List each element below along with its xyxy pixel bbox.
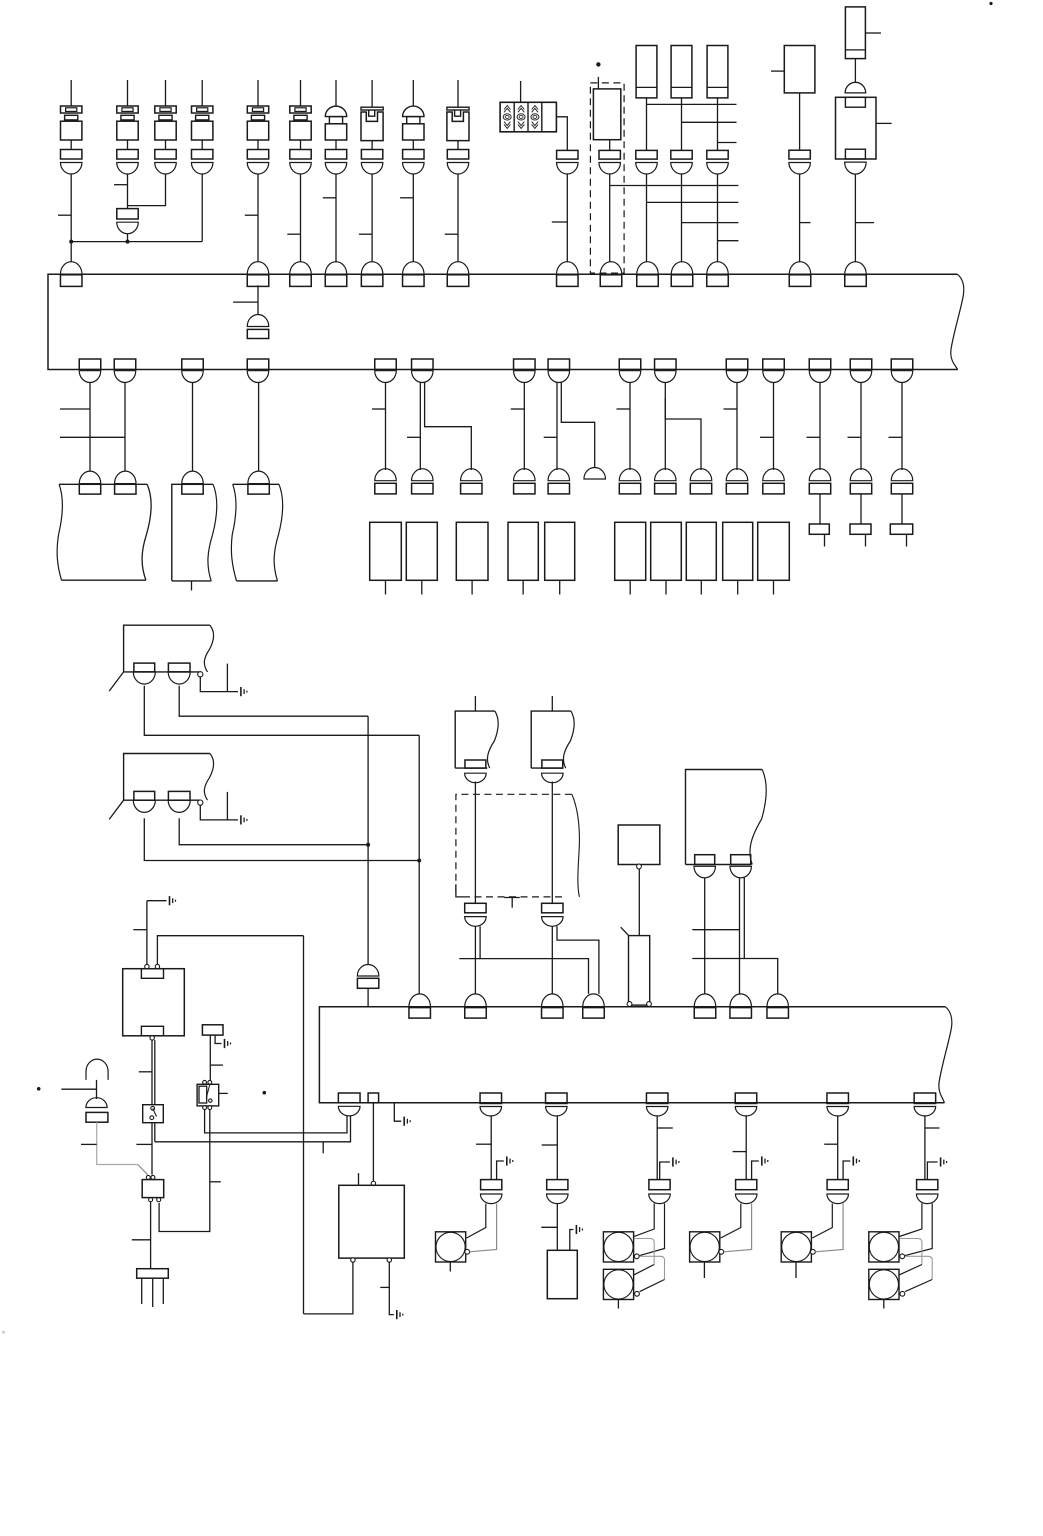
spk4 ground [761, 1156, 763, 1165]
switch body M1 [629, 936, 650, 1006]
terminal rect x820 [809, 524, 829, 534]
bus2 entry connector x419.7 [409, 994, 431, 1007]
connector below FB3 [707, 150, 728, 159]
bus1 entry connector x336 [325, 262, 347, 275]
branch rung 6 [682, 222, 739, 224]
bus1 bottom pin x630 [619, 359, 641, 370]
S1 lever [153, 1108, 157, 1116]
wire spk1 [490, 1116, 492, 1180]
gauge cell glyph 2 [518, 106, 524, 110]
bus1 exit connector x737 [726, 371, 748, 383]
wire col1 down [70, 174, 72, 242]
spk1 connector [481, 1180, 502, 1190]
wire K1 down [799, 93, 801, 150]
bus1 exit connector x258 [247, 371, 269, 383]
bus2 bottom pin x746 [735, 1093, 757, 1104]
component K3 box [836, 97, 877, 159]
bus1 bottom pin x902 [891, 359, 913, 370]
wire branch B-C [425, 383, 472, 471]
node dot top right [989, 2, 992, 5]
speaker SD [869, 1269, 899, 1299]
pump pin x475.4 [465, 760, 486, 768]
gauge block output wire [556, 117, 567, 151]
load L2 body [547, 1250, 577, 1298]
bus1 entry connector x567.3 [557, 262, 579, 275]
connector below K1 [789, 150, 810, 159]
connector below F3 [155, 150, 176, 160]
stub above pump box x475.4 [474, 696, 476, 711]
wire DB1 col down [609, 174, 611, 263]
junction block B ground [240, 815, 242, 824]
wire below bus x665 [664, 383, 666, 471]
wire K1 lower [799, 174, 801, 263]
stub below body x558 [559, 580, 561, 594]
dashed box DB1 [590, 83, 624, 273]
CB top terminal [371, 1181, 375, 1185]
ground R1 [169, 896, 171, 905]
R2 terminal ba [149, 1198, 153, 1202]
tick S2b route [210, 1181, 220, 1183]
tick gray wire [81, 1143, 97, 1145]
fusible link FL1 [361, 107, 383, 110]
wire pump x552.3 [551, 782, 553, 904]
T2 entry dome [182, 471, 204, 484]
bus1 entry connector x71.2 [60, 262, 81, 275]
connector pair mid col2 [117, 209, 138, 219]
tick x385.5 [372, 408, 386, 410]
stub below body x630 [629, 580, 631, 594]
bus2 bottom pin x837.7 [827, 1093, 849, 1104]
tick S2 right [219, 1092, 228, 1094]
relay box RB outline [686, 770, 763, 865]
connector pair x385.5 [375, 469, 397, 481]
torn box T1 [59, 483, 147, 485]
node dot left [37, 1087, 41, 1091]
SD terminal [900, 1291, 905, 1296]
fuse F2 [117, 106, 138, 113]
S2 inner terminal [209, 1099, 212, 1102]
bus2 top pin x593.5 [583, 1008, 605, 1019]
connector prong 3 [162, 1278, 164, 1304]
junction block A ground [240, 687, 242, 696]
bus2 top pin x740.7 [730, 1008, 752, 1019]
tick pump branch [459, 958, 480, 960]
wire RB b branch [744, 878, 777, 994]
bus1 bottom pin x665.3 [655, 359, 677, 370]
bus2 ground stub [394, 1103, 401, 1121]
bus2 top pin x475.5 [465, 1008, 487, 1019]
wire FB1 down [646, 98, 648, 150]
CB ground wire [389, 1262, 394, 1315]
junction block A diagonal lead [109, 672, 123, 691]
connector pair x861 [850, 469, 872, 481]
wire load2 [556, 1116, 558, 1180]
relay R1 box [123, 969, 185, 1036]
wire feed F4 [201, 80, 203, 106]
junction block A pin a [134, 663, 155, 672]
wire below bus x902 [901, 383, 903, 471]
wire spk6 [924, 1116, 926, 1180]
wire feed F3 [165, 80, 167, 106]
bus1 entry connector x300.5 [290, 262, 312, 275]
wire S2 feed [209, 1035, 211, 1080]
wire col3 down-left [128, 174, 166, 206]
load body x773.5 [758, 522, 790, 580]
connector below DB1 [599, 150, 620, 159]
connector dome below K3 [845, 162, 867, 174]
switch S2 box [197, 1084, 219, 1106]
stub x861 [865, 534, 867, 546]
wire A2 route [179, 686, 368, 716]
RB exit dome a [694, 866, 716, 878]
spk5 connector [827, 1180, 848, 1190]
branch rung 5 [647, 201, 739, 203]
wire col x336 down [335, 174, 337, 262]
bus1 bottom pin x773.5 [763, 359, 785, 370]
wire col4 down [201, 174, 203, 242]
tick load2 b [541, 1226, 557, 1228]
tick x557 [544, 436, 557, 438]
wire M1 down [638, 869, 640, 936]
R1 pin top [141, 969, 163, 979]
relay R2 box [142, 1180, 164, 1198]
stub below body x665 [665, 580, 667, 594]
spk6 wire b [905, 1203, 932, 1255]
fuse F5 [247, 106, 268, 113]
S2 terminal ba [203, 1106, 207, 1110]
wire below bus x524.3 [523, 383, 525, 471]
wire pump right to bus2 [551, 926, 553, 994]
load body x630 [615, 522, 646, 580]
DB1 inner component [593, 89, 620, 140]
horn connector rect [86, 1112, 108, 1122]
tick R1-S1 [139, 1071, 152, 1073]
junction block B pin b [168, 791, 190, 800]
bus1 bottom pin x861 [850, 359, 872, 370]
tick x773.5 [760, 436, 774, 438]
connector below FL2 [447, 150, 468, 160]
wire x861 lower [860, 494, 862, 524]
bus1 exit connector x125 [114, 371, 136, 383]
CB ground [396, 1310, 398, 1319]
load2 ground [575, 1225, 577, 1234]
connector pair x820 [809, 469, 831, 481]
spk3 ground wire [660, 1162, 670, 1180]
bus2 exit connector x746 [735, 1107, 757, 1116]
bus2 bottom pin x556.3 [546, 1093, 568, 1104]
wire FB2 down [681, 98, 683, 150]
wire col2 down [127, 174, 129, 209]
tick T1a [60, 408, 90, 410]
S2 terminal ta [203, 1080, 207, 1084]
T2 stub below [191, 581, 193, 591]
wire branch G-H [665, 398, 701, 470]
wire feed F5 [257, 80, 259, 106]
S2 lever [206, 1084, 210, 1098]
gray wire horn-relay [97, 1122, 138, 1164]
connector pair x902 [891, 469, 913, 481]
tick spk6 [925, 1127, 940, 1129]
SC terminal [900, 1254, 905, 1259]
tick S1 down [136, 1143, 152, 1145]
tick spk3 [657, 1127, 673, 1129]
wire feed F1 [70, 80, 72, 106]
connector below FB1 [636, 150, 657, 159]
wire S2b-R2 route [159, 1110, 210, 1232]
speaker S1 [436, 1232, 466, 1262]
spk6 ground [940, 1157, 942, 1166]
pump torn box x552.3 [531, 711, 571, 768]
stub below body x471 [471, 580, 473, 594]
R2 terminal ta [146, 1175, 150, 1179]
junction dot x368 [366, 843, 370, 847]
tick T1ab [60, 436, 125, 438]
S2 feed rect [202, 1025, 223, 1035]
bus1 bottom pin x422.3 [412, 359, 434, 370]
bus1 entry connector x717.5 [707, 262, 729, 275]
fusible link box FB2 [671, 46, 692, 98]
connector bar [137, 1269, 169, 1279]
T1 pin a [79, 484, 100, 494]
fuse F1 [61, 106, 82, 113]
bus1 exit connector x665.3 [655, 371, 677, 383]
wire B1 route [144, 818, 419, 860]
spk4 wire b [724, 1204, 752, 1252]
bus1 entry connector x682 [671, 262, 693, 275]
spk1 ground [506, 1156, 508, 1165]
R2 terminal bb [157, 1198, 161, 1202]
junction dot col1 [69, 240, 73, 244]
fusible link FL2 [447, 107, 469, 110]
tick R2 down [132, 1239, 151, 1241]
bus2 ground [403, 1117, 405, 1126]
S1 stub [449, 1262, 451, 1272]
bus1 exit connector x422.3 [412, 371, 434, 383]
connector dome above K3 [845, 82, 866, 93]
connector below F6 [290, 150, 311, 160]
tick K2 right [865, 32, 881, 34]
junction block A outline [124, 625, 210, 672]
stub on route [322, 1142, 324, 1153]
bus2 bottom pin x924.9 [914, 1093, 936, 1104]
bus1 bottom pin x125 [114, 359, 136, 370]
spk3 wire a [634, 1203, 654, 1236]
speaker SA [603, 1232, 633, 1262]
bus2 entry connector x740.7 [730, 994, 752, 1007]
wire branch E [561, 383, 594, 468]
wire pump x475.4 [474, 782, 476, 904]
terminal rect x902 [890, 524, 912, 534]
junction block A ground tick [226, 664, 228, 692]
bus2 top pin x777.7 [767, 1008, 789, 1019]
wire RB a down [704, 878, 706, 994]
R1 terminal a [145, 964, 149, 968]
wire to T3 [258, 383, 260, 471]
bus1 exit connector x820 [809, 371, 831, 383]
tick K1 left [771, 70, 784, 72]
tick col x413.3 [400, 197, 413, 199]
horn connector dome [86, 1098, 107, 1108]
fuse F3 [155, 106, 176, 113]
bus1 internal connector [247, 315, 269, 327]
junction dot x419 [417, 859, 421, 863]
gauge block (3-gang meter) [500, 102, 556, 132]
branch rung 2 [682, 121, 737, 123]
S1 terminal top [151, 1106, 155, 1110]
bus1 top pin x458 [447, 275, 469, 287]
M1 bus terminal a [627, 1002, 632, 1007]
connector below F5 [247, 150, 268, 160]
wire FB3 lower [717, 174, 719, 263]
spk5 ground wire [843, 1161, 850, 1180]
spk6 gray b [905, 1256, 932, 1279]
bus1 internal tick [233, 301, 258, 303]
bus1 bottom pin x820 [809, 359, 831, 370]
spk4 ground wire [752, 1161, 759, 1180]
vertical bus wire x419 [418, 735, 420, 994]
bus1 top pin x682 [671, 275, 693, 287]
bus1 entry connector x855.5 [845, 262, 867, 275]
M1 terminal circle [637, 864, 642, 869]
spk3 gray b [640, 1256, 665, 1279]
fuse F8 feed [412, 80, 414, 106]
bus2 entry connector x593.5 [583, 994, 605, 1007]
bus1 exit connector x192.5 [182, 371, 204, 383]
fusible link box FB3 [707, 46, 728, 98]
bus2 exit connector x490.8 [480, 1107, 502, 1116]
K3 pin top [845, 97, 865, 107]
wire below bus x385.5 [385, 383, 387, 471]
component M1 box [618, 825, 660, 865]
wire bus2-CB [372, 1103, 374, 1182]
branch rung 7 [718, 240, 739, 242]
tick x524.3 [511, 408, 525, 410]
tick load2 a [542, 1144, 558, 1146]
component K2 body [845, 7, 865, 59]
RB pin a [695, 855, 715, 865]
wire below bus x737 [736, 383, 738, 471]
gauge cell glyph 1 [504, 106, 510, 110]
S2 terminal bb [208, 1106, 212, 1110]
bus1 exit connector x902 [891, 371, 913, 383]
wire col x458 down [457, 174, 459, 262]
connector pair DB2 right [542, 903, 563, 913]
wire below bus x422 left [419, 383, 421, 471]
tick K2 lower [855, 222, 874, 224]
CB bottom terminal b [387, 1258, 391, 1262]
fuse F6 [290, 106, 311, 113]
wire col x258 down [257, 174, 259, 262]
torn box T2 [172, 484, 213, 581]
tick spk4 [733, 1151, 747, 1153]
S2 ground wire [215, 1035, 221, 1043]
T1 entry dome b [115, 471, 137, 484]
T2 pin [182, 484, 203, 494]
terminal rect x861 [850, 524, 871, 534]
connector below F8 [403, 150, 424, 160]
SA terminal [634, 1254, 639, 1259]
stub below body x737 [737, 580, 739, 594]
bus1 top pin x647.5 [637, 275, 659, 287]
spk1 wire b [470, 1204, 497, 1252]
junction bus wire [71, 241, 202, 243]
wire load2 b [556, 1204, 558, 1251]
R1 pin bottom [141, 1026, 163, 1036]
CB bottom terminal a [351, 1258, 355, 1262]
load body x701 [686, 522, 716, 580]
bus1 exit connector x861 [850, 371, 872, 383]
fusible link FL1 feed [371, 80, 373, 107]
wire pump left to bus2 [474, 926, 476, 994]
RB pin b [731, 855, 751, 865]
speaker SB [603, 1269, 633, 1299]
wire S1-bus2 route [155, 1116, 351, 1142]
tick spk1 [476, 1143, 491, 1145]
page artifact dot [2, 1331, 5, 1334]
bus2 exit connector x349 [338, 1106, 360, 1116]
tick x420 [407, 436, 420, 438]
tick col x458 [445, 233, 458, 235]
bus1 bottom pin x90 [79, 359, 101, 370]
bus1 exit connector x773.5 [763, 371, 785, 383]
gauge block feed wire [520, 81, 522, 102]
bus2 top pin x705 [694, 1008, 716, 1019]
switch S1 box [143, 1105, 164, 1123]
bus2 exit connector x556.3 [546, 1107, 568, 1116]
bus2 entry connector x552.3 [542, 994, 564, 1007]
wire x820 lower [819, 494, 821, 524]
bus1 bottom pin x258 [247, 359, 269, 370]
bus1 top pin x71.2 [60, 275, 81, 287]
junction block B ground tick [226, 792, 228, 820]
S3 terminal [811, 1249, 816, 1254]
stub above pump box x552.3 [551, 696, 553, 711]
wire FB3 down [717, 98, 719, 150]
T3 pin [248, 484, 269, 494]
spk6 gray a [899, 1239, 922, 1265]
wire R1 feed b [157, 936, 303, 965]
connector pair x630 [619, 469, 641, 481]
bus1 top pin x336 [325, 275, 347, 287]
connector below F4 [192, 150, 213, 160]
bus1 exit connector x385.5 [375, 371, 397, 383]
wire FB2 lower [681, 174, 683, 263]
spk6 ground wire [927, 1162, 937, 1180]
S3 stub [795, 1262, 797, 1278]
tick col x372.1 [359, 233, 372, 235]
junction block A ground wire [200, 677, 238, 692]
bus1 top pin x567.3 [557, 275, 579, 287]
spk5 ground [852, 1156, 854, 1165]
bus2 junction block band [319, 1007, 945, 1103]
wire col x300.5 down [300, 174, 302, 262]
wire x902 lower [901, 494, 903, 524]
dashed box DB2 [456, 794, 572, 897]
tick col x258 [245, 214, 258, 216]
bus2 entry connector x705 [694, 994, 716, 1007]
stub x820 [824, 534, 826, 546]
load2 ground wire [570, 1230, 574, 1251]
load body x471 [456, 522, 488, 580]
spk4 connector [736, 1180, 757, 1190]
horn arch [86, 1059, 108, 1080]
wire spk3 [656, 1116, 658, 1180]
bus1 entry connector x372.1 [361, 262, 383, 275]
DB1 stub top [597, 77, 599, 89]
load2 connector [547, 1180, 568, 1190]
bus1 exit connector x558.8 [548, 371, 570, 383]
fusible link FL2 feed [457, 80, 459, 107]
